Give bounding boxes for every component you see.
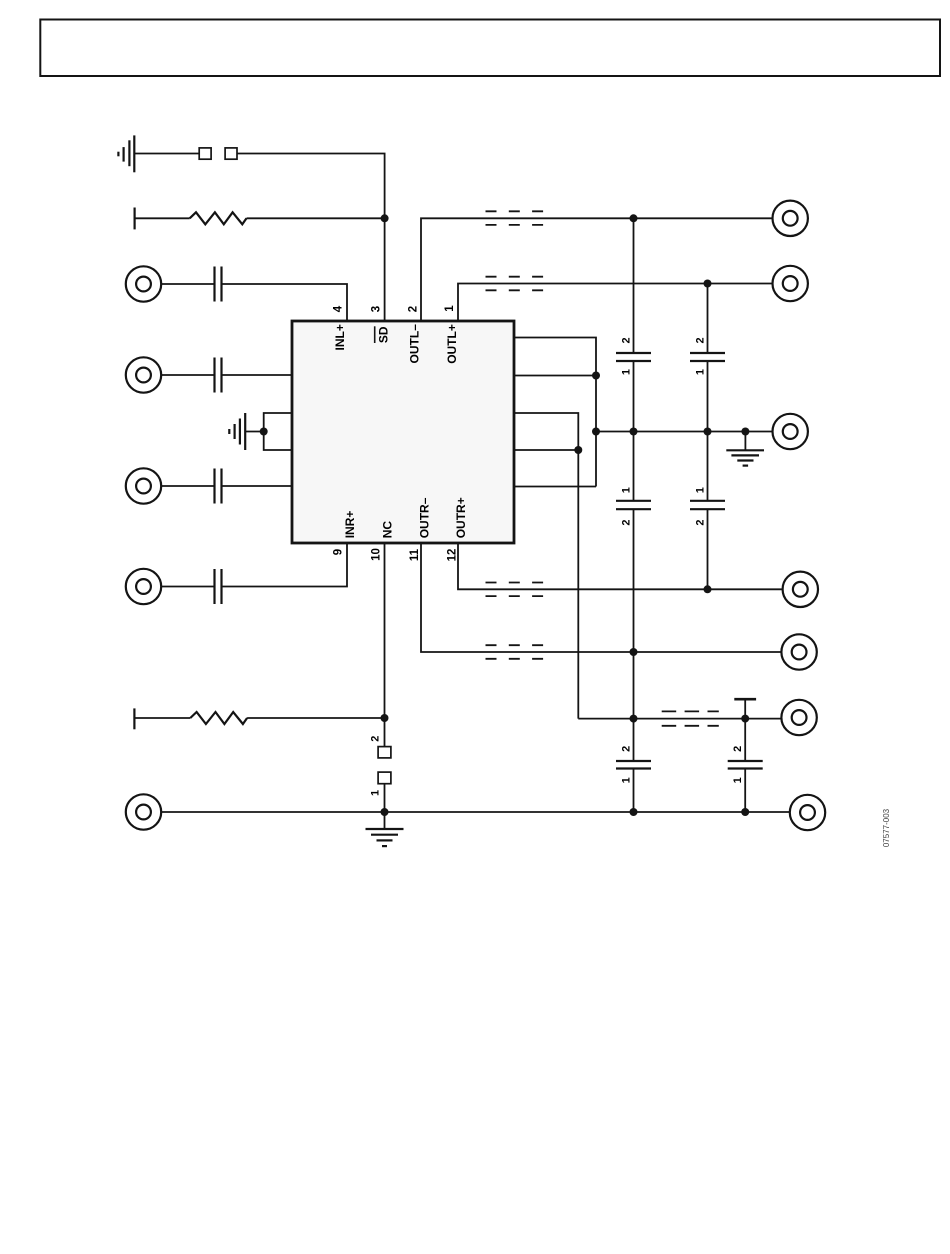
terminal post TP2: [133, 708, 135, 729]
svg-text:2: 2: [370, 736, 382, 742]
jumper JP2 pad 2: [378, 747, 391, 758]
svg-text:OUTL–: OUTL–: [408, 324, 422, 364]
connector J8 (right, OUTR+): [783, 572, 818, 607]
svg-text:1: 1: [620, 369, 632, 375]
junction C6 mid: [704, 428, 712, 436]
capacitor C6: [690, 353, 725, 361]
svg-text:NC: NC: [381, 521, 395, 539]
cable shield dashes bottom: [662, 711, 719, 725]
wire C8 column lower: [707, 509, 709, 589]
wire IC right pin 4th: [514, 449, 578, 451]
cable shield dashes OUTL+: [486, 277, 544, 291]
wire IC right pin 3rd to inner rail: [514, 413, 578, 719]
wire C6 to mid rail: [707, 361, 709, 501]
capacitor C9: [616, 761, 651, 769]
connector J11 (left bottom): [126, 794, 161, 829]
wire pin 11 OUTR- to connector J9: [421, 543, 781, 652]
wire J4 to capacitor C4: [162, 586, 215, 588]
wire C6 column upper: [707, 284, 709, 354]
svg-text:12: 12: [447, 549, 459, 562]
junction bottom rail C9: [630, 808, 638, 816]
terminal post TP3 (down): [734, 699, 756, 718]
wire pin 3 SD vertical: [384, 218, 386, 321]
junction bottom rail JP2: [381, 808, 389, 816]
junction OUTR- / C9: [630, 648, 638, 656]
wire C5 column upper: [633, 218, 635, 353]
wire C7 column lower: [633, 509, 635, 761]
capacitor C10: [728, 761, 763, 769]
terminal post TP1: [134, 208, 136, 230]
capacitor C8: [690, 501, 725, 509]
capacitor C3: [215, 469, 222, 504]
ground GND1 (top left, rotated left): [118, 135, 134, 172]
wire R2 to NC node: [247, 717, 384, 719]
svg-text:1: 1: [694, 369, 706, 375]
wire C5 to mid rail: [633, 361, 635, 501]
wire right rail vertical: [595, 376, 597, 487]
wire TP1 to resistor R1: [135, 217, 190, 219]
cable shield dashes OUTR-: [486, 645, 544, 659]
svg-text:1: 1: [732, 777, 744, 783]
junction C5 mid: [630, 428, 638, 436]
capacitor C7: [616, 501, 651, 509]
wire mid ground rail: [596, 431, 772, 433]
svg-text:2: 2: [694, 337, 706, 343]
svg-text:4: 4: [333, 305, 345, 312]
op-amp U1 (class-D amplifier IC body): [292, 321, 514, 543]
wire bottom ground rail: [162, 811, 789, 813]
wire J3 to capacitor C3: [162, 485, 215, 487]
wire C2 to IC left pin: [222, 374, 293, 376]
jumper JP1 pad B: [225, 148, 237, 159]
connector J4 (left, INR): [126, 569, 161, 604]
svg-text:OUTR+: OUTR+: [454, 497, 468, 538]
junction NC / R2: [381, 714, 389, 722]
title box: [40, 20, 940, 77]
wire R1 to SD node: [247, 217, 385, 219]
svg-text:3: 3: [370, 306, 382, 312]
capacitor C2: [215, 358, 222, 393]
svg-text:07577-003: 07577-003: [882, 808, 891, 847]
svg-text:SD: SD: [377, 326, 391, 343]
jumper JP2 pad 1: [378, 772, 391, 784]
svg-text:10: 10: [370, 548, 382, 561]
junction OUTR+ / C8: [704, 585, 712, 593]
connector J2 (left): [126, 357, 161, 392]
wire pin 12 OUTR+ to connector J8: [458, 543, 782, 589]
wire C4 to pin 9 INR+: [222, 543, 348, 587]
wire C9 to bottom rail: [633, 769, 635, 813]
svg-text:1: 1: [620, 777, 632, 783]
junction C10 top rail: [741, 715, 749, 723]
overline of SD: [374, 326, 376, 343]
svg-text:2: 2: [620, 337, 632, 343]
junction right rail upper: [592, 372, 600, 380]
connector J1 (left, INL): [126, 266, 161, 301]
svg-text:9: 9: [333, 549, 345, 555]
svg-text:1: 1: [620, 487, 632, 493]
cable shield dashes OUTR+: [486, 583, 544, 597]
svg-text:OUTL+: OUTL+: [445, 324, 459, 364]
capacitor C5: [616, 353, 651, 361]
cable shield dashes OUTL-: [486, 211, 544, 225]
svg-text:1: 1: [370, 790, 382, 796]
svg-text:1: 1: [444, 305, 456, 312]
wire C10 to bottom rail: [744, 769, 746, 813]
wire IC right pin 2nd: [514, 375, 596, 377]
svg-text:2: 2: [620, 520, 632, 526]
node SD junction: [381, 214, 389, 222]
svg-text:11: 11: [409, 548, 421, 561]
junction OUTL- / C5: [630, 214, 638, 222]
jumper JP1 pad A: [199, 148, 211, 159]
capacitor C1: [215, 267, 222, 302]
wire GND1 to jumper pad 1: [134, 153, 199, 155]
wire pin 1 OUTL+ to connector J6: [458, 284, 772, 322]
svg-text:2: 2: [694, 520, 706, 526]
wire inner rail to connector J10: [578, 718, 780, 720]
wire C10 column: [744, 719, 746, 761]
wire TP2 to resistor R2: [134, 717, 190, 719]
connector J9 (right, OUTR-): [781, 634, 816, 669]
junction OUTL+ / C6: [704, 280, 712, 288]
ground GND4 (bottom): [366, 812, 404, 846]
wire pin 10 NC vertical: [384, 543, 386, 747]
junction C9 top rail: [630, 715, 638, 723]
wire jumper pad B to SD net corner: [237, 154, 385, 219]
wire bracket for IC left pins: [264, 413, 292, 450]
svg-text:1: 1: [694, 487, 706, 493]
wire IC right pin 5th: [514, 486, 596, 488]
svg-text:2: 2: [732, 746, 744, 752]
ground GND2 (left of IC, rotated left): [229, 413, 245, 450]
wire JP2 pad 1 to bottom rail: [384, 784, 386, 812]
junction mid ground tap: [741, 428, 749, 436]
svg-text:2: 2: [407, 306, 419, 312]
connector J6 (right, OUTL+): [773, 266, 808, 301]
junction bottom rail C10: [741, 808, 749, 816]
wire J2 to capacitor C2: [162, 374, 215, 376]
connector J5 (right, OUTL-): [773, 201, 808, 236]
wire IC right pin to snubber rail upper: [514, 338, 596, 376]
connector J12 (right bottom): [790, 795, 825, 830]
capacitor C4: [215, 569, 222, 604]
resistor R2: [190, 712, 247, 724]
connector J10 (right): [781, 700, 816, 735]
wire pin 2 OUTL- to connector J5: [421, 218, 772, 321]
wire J1 to capacitor C1: [162, 283, 215, 285]
wire C1 to pin 4 INL+: [222, 284, 348, 321]
ground GND3 (mid right): [726, 432, 764, 466]
resistor R1: [190, 212, 247, 224]
svg-text:INL+: INL+: [333, 324, 347, 350]
wire GND2 to bracket junction: [245, 431, 264, 433]
junction bracket ground: [260, 428, 268, 436]
connector J3 (left): [126, 468, 161, 503]
junction inner rail: [574, 446, 582, 454]
junction right rail mid: [592, 428, 600, 436]
connector J7 (right, mid ground): [773, 414, 808, 449]
wire C3 to IC left pin: [222, 485, 293, 487]
svg-text:INR+: INR+: [343, 511, 357, 539]
svg-text:2: 2: [620, 746, 632, 752]
svg-text:OUTR–: OUTR–: [417, 497, 431, 538]
